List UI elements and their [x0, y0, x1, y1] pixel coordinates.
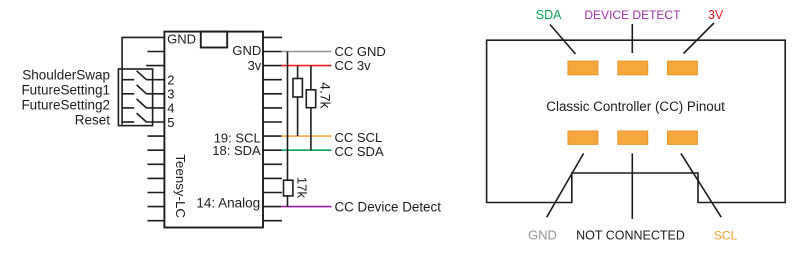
- pad 2 (Device Detect): [618, 61, 648, 75]
- right pin stubs: [263, 37, 282, 220]
- svg-text:3v: 3v: [248, 58, 262, 73]
- svg-text:DEVICE DETECT: DEVICE DETECT: [584, 8, 681, 22]
- pad 6 (SCL): [667, 131, 697, 145]
- wire GND pin loop to switch common bus: [122, 37, 164, 124]
- svg-text:ShoulderSwap: ShoulderSwap: [22, 68, 110, 83]
- connector body outline with notch: [487, 40, 786, 202]
- switch S3 FutureSetting2 (pin 4): [122, 99, 164, 108]
- svg-text:GND: GND: [528, 227, 557, 242]
- svg-text:CC 3v: CC 3v: [335, 58, 372, 73]
- resistor R1 4.7k body: [293, 79, 302, 98]
- pad 4 (GND): [568, 131, 598, 145]
- USB connector on U1: [201, 32, 227, 48]
- wire CC GND (gray): [281, 51, 331, 53]
- svg-text:GND: GND: [232, 43, 261, 58]
- svg-text:18: SDA: 18: SDA: [212, 143, 261, 158]
- wire CC SDA (green): [281, 149, 331, 151]
- wire 17k to pin 14 row: [287, 196, 289, 207]
- svg-text:NOT CONNECTED: NOT CONNECTED: [576, 228, 685, 242]
- wire CC SCL (orange): [281, 135, 331, 137]
- wire CC Device Detect (magenta): [281, 206, 331, 208]
- svg-text:3V: 3V: [708, 8, 724, 22]
- leader 3V to pad 3: [684, 23, 715, 54]
- wire CC 3v (red): [281, 65, 331, 67]
- switch box S1-S4: [118, 69, 152, 126]
- svg-text:CC Device Detect: CC Device Detect: [335, 200, 442, 215]
- svg-text:2: 2: [167, 73, 174, 88]
- wire R2 to SDA row: [310, 108, 312, 151]
- switch S2 FutureSetting1 (pin 3): [122, 85, 164, 94]
- svg-text:3: 3: [167, 87, 174, 102]
- svg-text:CC SCL: CC SCL: [335, 130, 383, 145]
- leader DEVICE DETECT to pad 2: [631, 24, 633, 53]
- svg-text:Teensy-LC: Teensy-LC: [173, 154, 188, 218]
- svg-text:14: Analog: 14: Analog: [196, 195, 260, 210]
- svg-text:CC GND: CC GND: [335, 44, 386, 59]
- pad 3 (3V): [667, 61, 697, 75]
- svg-text:SCL: SCL: [714, 228, 738, 242]
- svg-text:5: 5: [167, 115, 174, 130]
- pad 1 (SDA): [568, 61, 598, 75]
- leader SDA to pad 1: [550, 25, 576, 55]
- wire 3v to resistor R2: [310, 66, 312, 90]
- wire GND rail to 17k: [287, 52, 289, 181]
- leader pad 6 to SCL: [681, 153, 721, 217]
- pad 5 (Not Connected): [618, 131, 648, 145]
- switch S4 Reset (pin 5): [122, 113, 164, 122]
- svg-text:4: 4: [167, 101, 174, 116]
- wire R1 to SCL row: [297, 97, 299, 136]
- svg-text:Classic Controller (CC) Pinout: Classic Controller (CC) Pinout: [546, 99, 725, 114]
- switch S1 ShoulderSwap (pin 2): [122, 71, 164, 80]
- leader pad 5 to NOT CONNECTED: [631, 153, 633, 219]
- svg-text:4.7k: 4.7k: [318, 82, 334, 109]
- resistor R2 4.7k body: [306, 90, 315, 108]
- wire 3v to resistor R1: [297, 66, 299, 79]
- left pin stubs (no-connect): [146, 52, 164, 221]
- svg-text:SDA: SDA: [536, 8, 562, 22]
- svg-text:FutureSetting1: FutureSetting1: [21, 83, 110, 98]
- svg-text:Reset: Reset: [75, 113, 111, 128]
- svg-text:GND: GND: [167, 32, 196, 47]
- svg-text:FutureSetting2: FutureSetting2: [21, 98, 110, 113]
- microcontroller U1 Teensy-LC body: [164, 32, 263, 228]
- svg-text:17k: 17k: [294, 177, 309, 199]
- svg-text:CC SDA: CC SDA: [335, 144, 384, 159]
- resistor 17k body: [284, 180, 293, 196]
- leader pad 4 to GND: [547, 153, 584, 217]
